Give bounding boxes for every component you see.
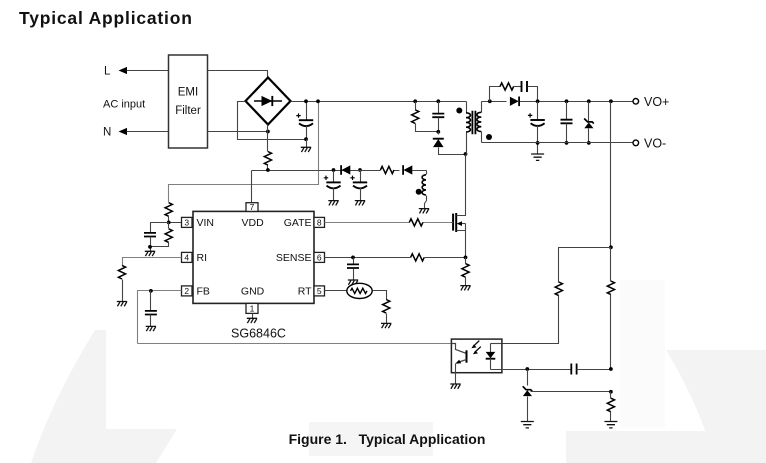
wire L input bbox=[127, 70, 169, 72]
svg-text:RI: RI bbox=[197, 252, 208, 264]
capacitor C10 bbox=[145, 291, 157, 327]
capacitor C2 clamp bbox=[432, 99, 444, 131]
wire L to bridge top bbox=[208, 71, 268, 78]
wire R13 to VIN node bbox=[169, 217, 182, 223]
aux polarity dot bbox=[416, 189, 422, 195]
ground opto emitter bbox=[450, 384, 460, 389]
wire secondary top rail bbox=[482, 101, 634, 103]
node C7 bottom bbox=[536, 141, 540, 145]
svg-text:8: 8 bbox=[317, 218, 322, 228]
pin 3 bbox=[182, 217, 193, 227]
ground C10 bbox=[146, 326, 156, 331]
svg-text:L: L bbox=[104, 66, 111, 78]
svg-text:SENSE: SENSE bbox=[276, 252, 312, 264]
wire bridge bottom to startup resistor bbox=[267, 125, 269, 152]
svg-text:3: 3 bbox=[184, 218, 189, 228]
resistor R12 bbox=[118, 265, 125, 279]
wire SENSE bbox=[325, 257, 466, 259]
pin 6 bbox=[314, 252, 325, 262]
capacitor C1 bulk bbox=[296, 102, 313, 140]
resistor R13 bbox=[165, 203, 172, 217]
svg-text:5: 5 bbox=[317, 286, 322, 296]
resistor R6b current sense bbox=[462, 258, 469, 286]
capacitor C3 VDD bbox=[324, 168, 341, 200]
svg-text:Filter: Filter bbox=[175, 105, 201, 117]
optocoupler U2 bbox=[451, 339, 502, 384]
zener ZD1 bbox=[584, 99, 594, 144]
svg-text:4: 4 bbox=[184, 253, 189, 263]
wire RT1 to R6 bbox=[373, 291, 387, 300]
node C1 top bbox=[304, 99, 308, 103]
svg-text:AC input: AC input bbox=[103, 99, 145, 111]
svg-text:FB: FB bbox=[197, 286, 210, 298]
node divider top bbox=[609, 99, 613, 103]
node FB cap bbox=[149, 289, 153, 293]
ground aux bbox=[419, 209, 429, 214]
T1 primary polarity dot bbox=[456, 108, 462, 114]
pin 4 bbox=[182, 252, 193, 262]
label L bbox=[104, 66, 111, 78]
wire VDD riser to pin7 bbox=[251, 171, 253, 203]
node comp right bbox=[609, 367, 613, 371]
diode D1 clamp bbox=[433, 132, 466, 155]
aux winding bbox=[422, 171, 426, 209]
U1 label SG6846C bbox=[231, 327, 286, 341]
svg-text:RT: RT bbox=[298, 286, 312, 298]
resistor R1 startup bbox=[264, 152, 271, 166]
capacitor C4 VDD bbox=[350, 168, 380, 200]
svg-text:1: 1 bbox=[250, 304, 255, 314]
wire divider from VO+ bbox=[610, 102, 612, 248]
shunt regulator U3 TL431 bbox=[523, 370, 533, 422]
wire bridge negative to ground rail bbox=[238, 102, 307, 140]
node comp bbox=[525, 367, 529, 371]
wire U3 ref bbox=[531, 391, 611, 393]
snubber R7 C6 bbox=[488, 81, 538, 103]
capacitor C7 output bbox=[528, 99, 545, 154]
wire R1 to VDD rail bbox=[267, 166, 269, 171]
ground C4 bbox=[355, 201, 365, 206]
svg-text:2: 2 bbox=[184, 286, 189, 296]
capacitor C8 bbox=[561, 99, 573, 144]
node clamp bbox=[436, 130, 440, 134]
wire FB bbox=[138, 291, 182, 344]
MOSFET Q1 bbox=[452, 155, 466, 258]
resistor R2 clamp bbox=[412, 99, 439, 131]
T1 core bbox=[472, 111, 475, 134]
EMI filter block bbox=[169, 55, 208, 148]
pin 2 bbox=[182, 286, 193, 296]
arrow N bbox=[119, 128, 128, 135]
capacitor C11 bbox=[144, 223, 169, 252]
svg-text:GATE: GATE bbox=[284, 217, 312, 229]
ground C3 bbox=[328, 201, 338, 206]
resistor R6 bbox=[383, 300, 390, 314]
label AC input bbox=[103, 99, 145, 111]
wire GATE bbox=[325, 222, 452, 224]
svg-text:SG6846C: SG6846C bbox=[231, 327, 286, 341]
resistor R3 gate bbox=[409, 219, 423, 226]
ground GND pin bbox=[247, 314, 257, 324]
svg-text:VO+: VO+ bbox=[644, 95, 669, 109]
diode D2 bbox=[337, 165, 356, 175]
node C11 bottom bbox=[148, 245, 152, 249]
resistor R9 opto bias bbox=[555, 282, 562, 296]
node VIN bbox=[167, 221, 171, 225]
capacitor C9 compensation bbox=[571, 364, 610, 375]
transformer T1 primary bbox=[466, 102, 470, 155]
wire R9 to opto anode bbox=[502, 296, 559, 344]
ground C5 bbox=[348, 280, 358, 285]
wire FB rail bbox=[138, 343, 452, 345]
pin 8 bbox=[314, 217, 325, 227]
svg-text:Typical Application: Typical Application bbox=[19, 8, 193, 28]
terminal VO+ bbox=[633, 95, 669, 109]
wire N input bbox=[127, 131, 169, 133]
wire RT bbox=[325, 290, 348, 292]
T1 secondary bbox=[477, 102, 482, 143]
pin 5 bbox=[314, 286, 325, 296]
resistor R4 bbox=[380, 166, 394, 173]
node source sense bbox=[464, 256, 468, 260]
wire RI bbox=[123, 258, 182, 266]
diode D3 bbox=[395, 165, 427, 175]
svg-text:7: 7 bbox=[250, 202, 255, 212]
node startup junction bbox=[266, 168, 270, 172]
arrow L bbox=[119, 67, 128, 74]
ground R10 earth bbox=[604, 422, 617, 428]
resistor R5 sense bbox=[411, 254, 425, 261]
svg-text:N: N bbox=[103, 127, 111, 139]
wire opto cathode bbox=[491, 369, 572, 371]
diode D4 output rectifier bbox=[510, 97, 519, 107]
ground R12 bbox=[117, 280, 127, 307]
svg-text:VO-: VO- bbox=[644, 137, 666, 151]
node SENSE filter bbox=[351, 256, 355, 260]
node divider branch bbox=[609, 245, 613, 249]
pin 7 bbox=[246, 202, 258, 212]
svg-text:GND: GND bbox=[241, 286, 265, 298]
ground sense resistor bbox=[460, 286, 470, 291]
wire opto bias branch bbox=[559, 248, 611, 283]
T1 secondary polarity dot bbox=[486, 134, 492, 140]
ground C7 earth bbox=[531, 154, 544, 160]
wire N to bridge bottom bbox=[208, 131, 268, 133]
IC U1 SG6846C bbox=[193, 211, 314, 303]
bridge rectifier BR1 bbox=[246, 78, 291, 125]
wire VIN feed bbox=[169, 102, 319, 203]
wire bridge positive top rail bbox=[291, 101, 467, 103]
thermistor RT1 bbox=[347, 283, 372, 298]
node C1 bottom bbox=[304, 137, 308, 141]
ground R6 bbox=[381, 314, 391, 329]
ground U3 earth bbox=[521, 422, 534, 428]
svg-text:EMI: EMI bbox=[178, 87, 198, 99]
ground C1 bbox=[301, 140, 311, 153]
svg-text:VDD: VDD bbox=[242, 217, 265, 229]
resistor R8 upper divider bbox=[607, 248, 614, 370]
svg-text:Figure 1. Typical Applicatio: Figure 1. Typical Application bbox=[289, 431, 486, 447]
label N bbox=[103, 127, 111, 139]
node top rail VIN feed bbox=[316, 99, 320, 103]
svg-text:VIN: VIN bbox=[197, 217, 215, 229]
wire VO- rail bbox=[482, 142, 634, 144]
svg-text:6: 6 bbox=[317, 253, 322, 263]
ground C11 bbox=[145, 251, 155, 256]
resistor R10 lower divider bbox=[607, 392, 614, 422]
pin 1 bbox=[246, 303, 258, 313]
terminal VO- bbox=[633, 137, 666, 151]
caption Figure 1. Typical Application bbox=[289, 431, 486, 447]
node drain-primary bbox=[464, 152, 468, 156]
capacitor C5 bbox=[347, 258, 359, 281]
title Typical Application bbox=[19, 8, 193, 28]
wire VDD rail bbox=[252, 170, 337, 172]
node N-bridge junction bbox=[266, 130, 270, 134]
node ref bbox=[609, 390, 613, 394]
resistor R14 bbox=[151, 223, 173, 247]
